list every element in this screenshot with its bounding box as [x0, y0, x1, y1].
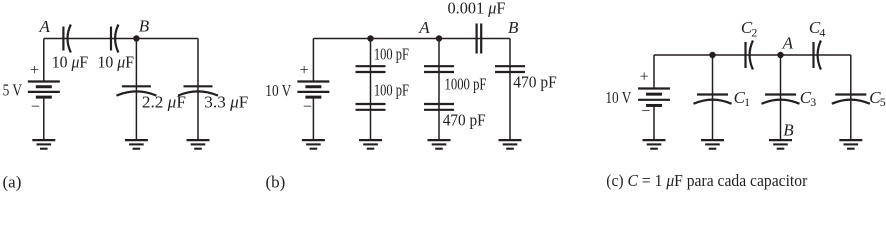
ground at C3 branch (c) — [769, 140, 792, 149]
wire node A down to ground (b) — [438, 39, 440, 141]
battery BT2 10 V (b) — [297, 82, 329, 98]
wire C5 branch down to ground (c) — [850, 55, 852, 140]
svg-text:B: B — [783, 120, 794, 139]
svg-text:(b): (b) — [266, 173, 286, 192]
junction dot first branch (b) — [367, 35, 373, 41]
wire C1 branch down to ground (c) — [712, 55, 714, 140]
svg-text:470 pF: 470 pF — [513, 73, 557, 92]
node A junction dot (c) — [777, 52, 783, 58]
ground at C1 branch (c) — [701, 140, 724, 149]
capacitor 0.001 uF series (b) — [477, 24, 482, 54]
svg-text:B: B — [139, 17, 150, 36]
capacitor 1000 pF (b) — [424, 66, 454, 72]
ground at 2.2 uF branch (a) — [125, 140, 148, 149]
ground at node A branch (b) — [428, 140, 451, 149]
ground at battery (a) — [32, 140, 55, 149]
svg-text:10 μF: 10 μF — [52, 52, 88, 71]
wire riser from battery positive to rail (c) — [653, 55, 655, 89]
capacitor 10 uF left (a) — [63, 25, 70, 53]
svg-text:10 V: 10 V — [265, 81, 291, 100]
wire right branch down to ground (a) — [197, 39, 199, 141]
svg-text:1: 1 — [744, 95, 750, 109]
wire riser from battery positive to rail (b) — [312, 39, 314, 82]
wire node B down to ground (a) — [135, 39, 137, 141]
svg-text:5: 5 — [880, 95, 886, 109]
svg-text:−: − — [303, 99, 312, 116]
node A junction dot (b) — [436, 35, 442, 41]
svg-text:470 pF: 470 pF — [443, 111, 486, 130]
capacitor C4 series (c) — [814, 41, 821, 70]
capacitor C5 (c) — [832, 95, 870, 104]
capacitor 470 pF middle (b) — [424, 104, 454, 110]
wire top rail (c) — [654, 54, 851, 56]
junction dot C1 branch (c) — [709, 52, 715, 58]
svg-text:(c) C = 1 μF para cada capacit: (c) C = 1 μF para cada capacitor — [606, 171, 807, 190]
svg-text:+: + — [30, 62, 39, 79]
svg-text:B: B — [508, 18, 519, 37]
svg-text:4: 4 — [819, 25, 825, 39]
battery BT3 10 V (c) — [638, 89, 670, 106]
battery BT1 5 V (a) — [28, 82, 60, 98]
capacitor 100 pF upper (b) — [356, 66, 386, 72]
svg-text:−: − — [31, 99, 40, 116]
wire top rail (b) — [313, 38, 510, 40]
svg-text:1000 pF: 1000 pF — [445, 74, 487, 93]
ground at battery (b) — [302, 140, 325, 149]
capacitor 10 uF right (a) — [111, 25, 118, 53]
ground at battery (c) — [643, 140, 666, 149]
svg-text:A: A — [418, 18, 430, 37]
wire battery negative to ground (a) — [43, 97, 45, 140]
wire riser from battery positive to node A (a) — [43, 39, 45, 82]
wire node A down to ground (c) — [780, 55, 782, 140]
ground at 3.3 uF branch (a) — [187, 140, 210, 149]
svg-text:(a): (a) — [3, 173, 22, 192]
capacitor C1 (c) — [694, 95, 732, 104]
capacitor 2.2 uF (a) — [116, 86, 156, 95]
capacitor C2 series (c) — [746, 41, 753, 70]
wire battery negative to ground (b) — [312, 97, 314, 140]
wire battery negative to ground (c) — [653, 105, 655, 140]
node B junction dot (a) — [133, 35, 139, 41]
svg-text:A: A — [39, 17, 51, 36]
ground at C5 branch (c) — [839, 140, 862, 149]
svg-text:10 μF: 10 μF — [98, 52, 135, 71]
svg-text:3.3 μF: 3.3 μF — [204, 93, 248, 112]
svg-text:100 pF: 100 pF — [374, 80, 409, 99]
svg-text:0.001 μF: 0.001 μF — [448, 0, 506, 18]
svg-text:A: A — [782, 33, 794, 52]
wire first branch down to ground (b) — [370, 39, 372, 141]
svg-text:+: + — [640, 68, 649, 85]
svg-text:−: − — [641, 103, 650, 120]
svg-text:3: 3 — [810, 95, 816, 109]
ground at node B branch (b) — [499, 140, 522, 149]
capacitor 100 pF lower (b) — [356, 104, 386, 110]
capacitor C3 (c) — [762, 95, 800, 104]
wire node B down to ground (b) — [509, 39, 511, 141]
capacitor 470 pF right (b) — [495, 66, 525, 72]
svg-text:+: + — [300, 62, 309, 79]
wire top rail node A to right branch (a) — [44, 38, 198, 40]
ground at first branch (b) — [359, 140, 382, 149]
svg-text:5 V: 5 V — [3, 81, 23, 100]
svg-text:2: 2 — [751, 25, 757, 39]
capacitor 3.3 uF (a) — [178, 86, 218, 95]
svg-text:100 pF: 100 pF — [374, 45, 409, 64]
svg-text:10 V: 10 V — [605, 88, 631, 107]
